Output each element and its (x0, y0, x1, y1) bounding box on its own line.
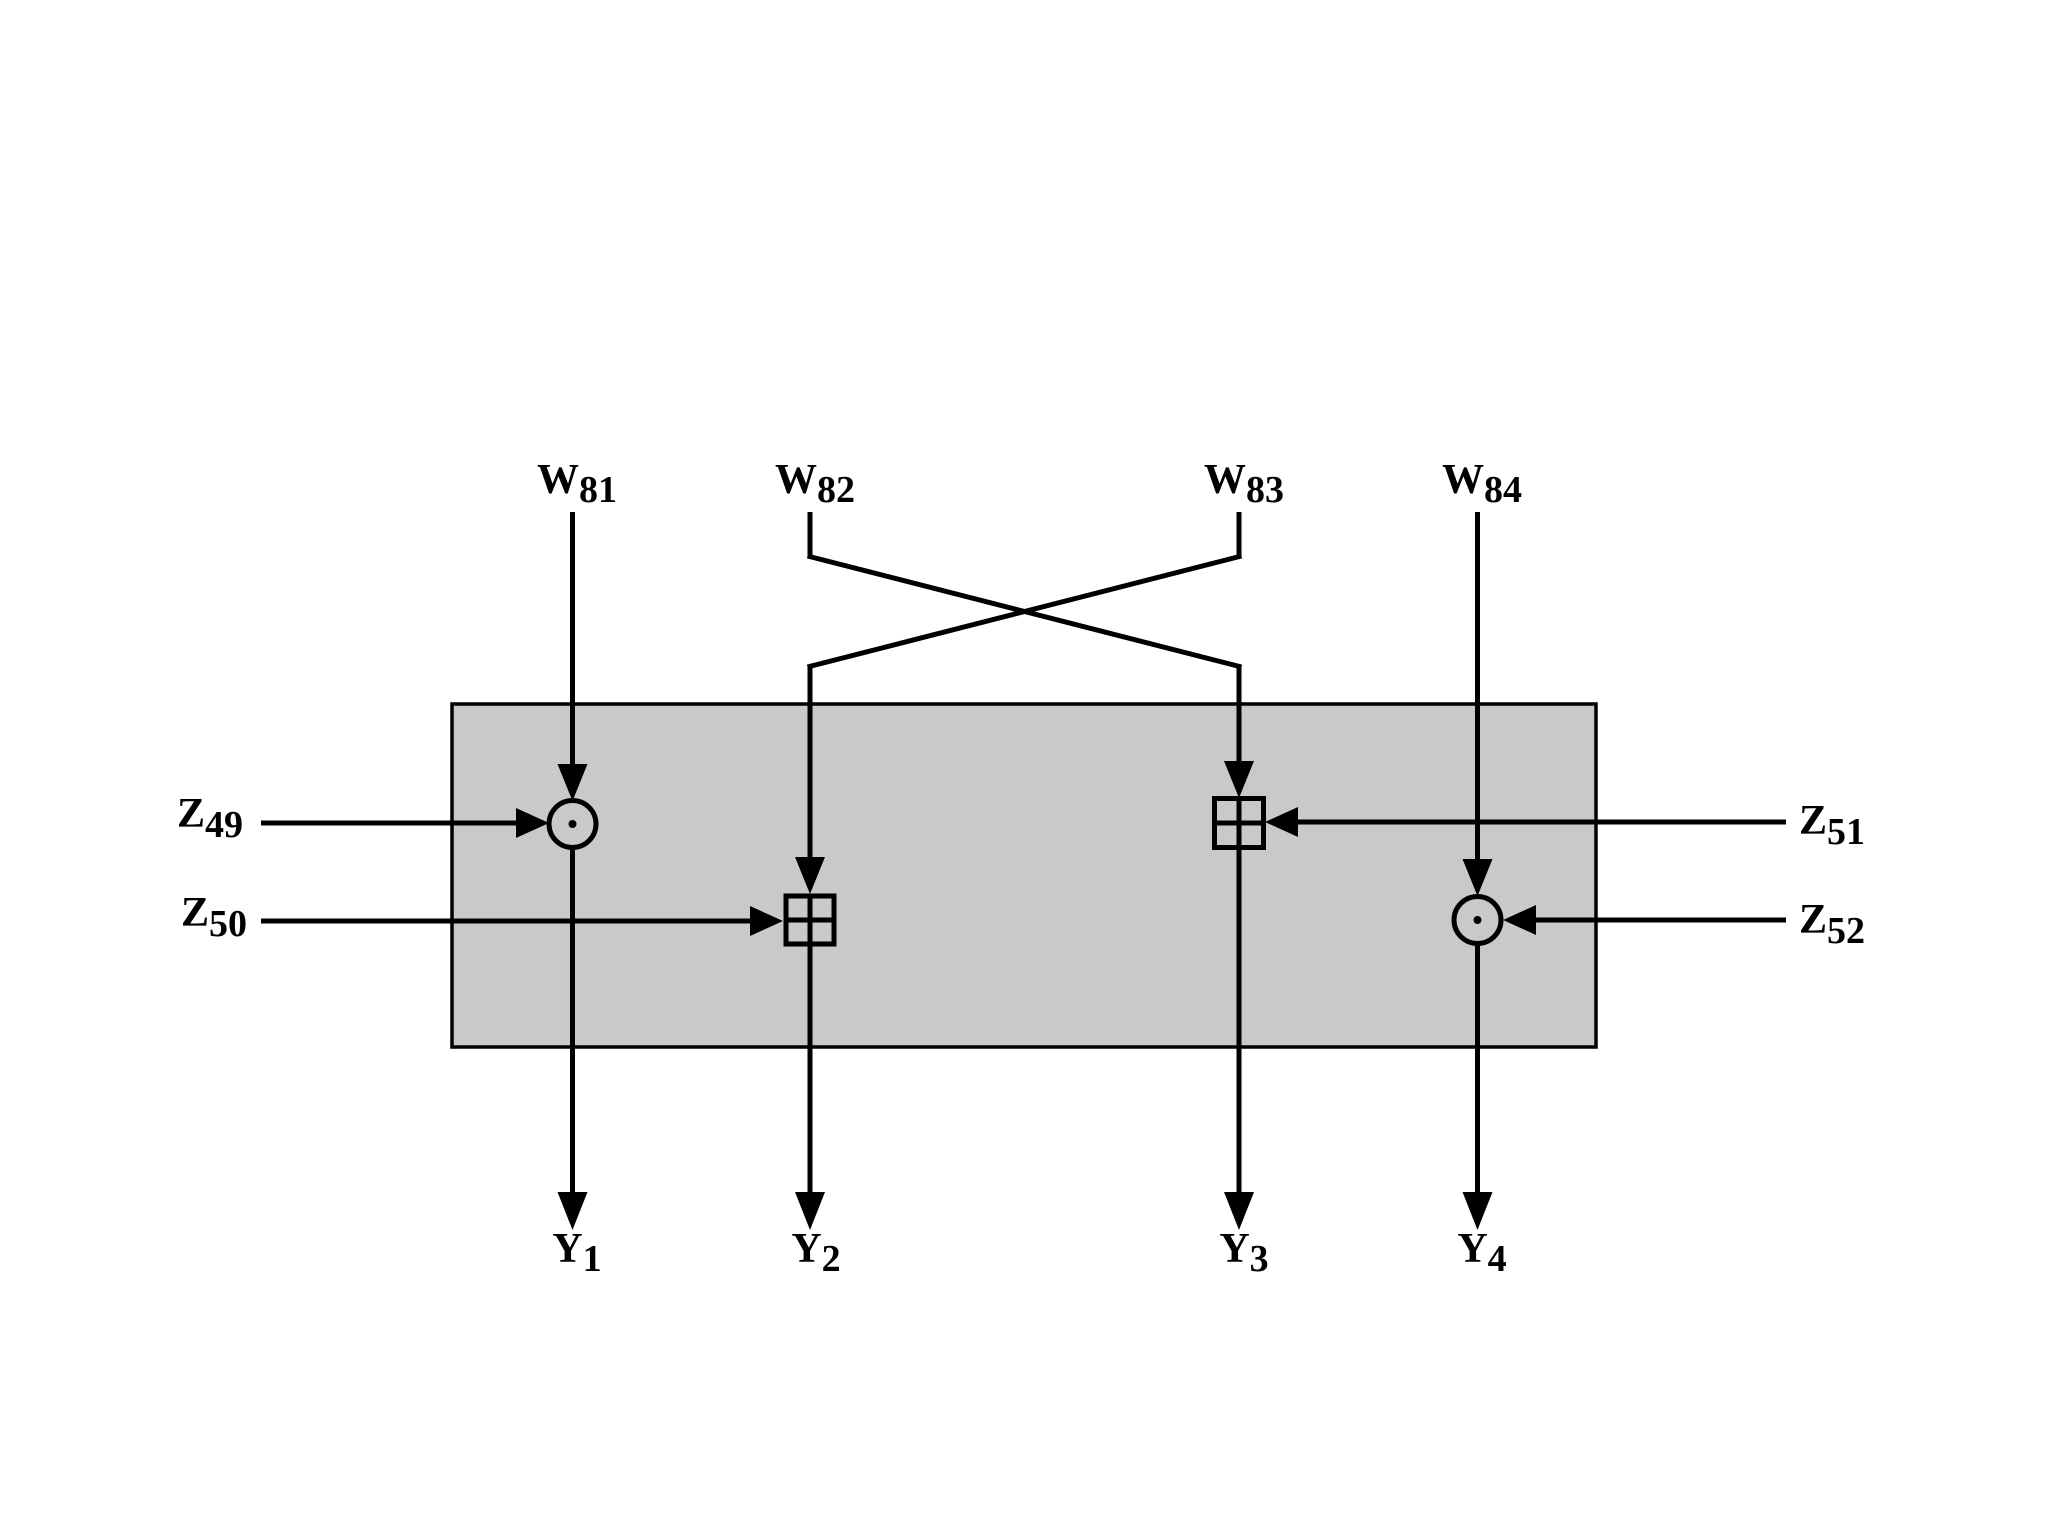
arrowhead into adder A3 (1224, 761, 1254, 798)
arrowhead Y4 (1463, 1192, 1493, 1230)
wire into adder A2 (from W83) (808, 667, 813, 858)
wire into adder A3 (from W82) (1237, 667, 1242, 762)
arrowhead Z51 into adder A3 (1265, 807, 1298, 837)
wire Y3 output vertical (1237, 847, 1242, 1193)
wire Z50 horizontal (261, 919, 752, 924)
wire Y2 output vertical (808, 945, 813, 1193)
multiplier U4 (circle-dot, mod 2^16+1 multiply) (1454, 897, 1501, 944)
arrowhead into multiplier U1 (558, 764, 588, 801)
shaded output transformation box (452, 704, 1596, 1047)
wire W82 vertical stub (808, 512, 813, 556)
multiplier U1 (circle-dot, mod 2^16+1 multiply) (549, 801, 596, 848)
wire Z51 horizontal (1296, 820, 1786, 825)
wire Z49 horizontal (261, 821, 518, 826)
wire Y4 output vertical (1475, 942, 1480, 1193)
wire W84 vertical top (1475, 512, 1480, 861)
arrowhead Y1 (558, 1192, 588, 1230)
wire W82 diagonal to right (808, 556, 1242, 667)
wire W83 diagonal to left (808, 556, 1242, 667)
wire Y1 output vertical (570, 847, 575, 1193)
adder A2 (boxed plus, mod 2^16 add) (786, 896, 834, 944)
arrowhead Z50 into adder A2 (750, 906, 783, 936)
arrowhead Z52 into multiplier U4 (1503, 905, 1536, 935)
arrowhead Y2 (795, 1192, 825, 1230)
wire Z52 horizontal (1534, 918, 1786, 923)
arrowhead Y3 (1224, 1192, 1254, 1230)
wire W81 vertical top (570, 512, 575, 766)
arrowhead into multiplier U4 (1463, 859, 1493, 896)
arrowhead into adder A2 (795, 857, 825, 894)
adder A3 (boxed plus, mod 2^16 add) (1215, 799, 1264, 848)
wire W83 vertical stub (1237, 512, 1242, 556)
arrowhead Z49 into multiplier U1 (516, 808, 549, 838)
